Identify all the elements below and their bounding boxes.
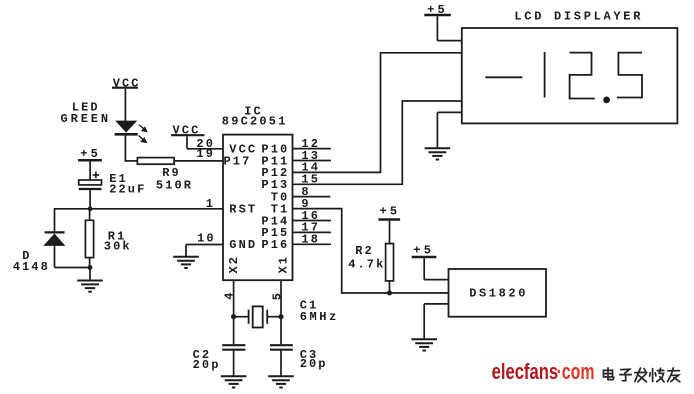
svg-text:10: 10 (197, 232, 216, 246)
svg-text:+5: +5 (413, 244, 434, 258)
svg-text:DS1820: DS1820 (469, 286, 528, 300)
svg-text:20p: 20p (300, 357, 328, 371)
svg-text:X1: X1 (276, 255, 290, 274)
svg-text:89C2051: 89C2051 (222, 115, 288, 129)
svg-text:1: 1 (206, 197, 215, 211)
svg-text:6MHz: 6MHz (300, 310, 339, 324)
svg-text:GND: GND (229, 238, 257, 252)
svg-text:X2: X2 (227, 255, 241, 274)
svg-text:·com: ·com (557, 359, 595, 384)
svg-text:GREEN: GREEN (61, 112, 112, 126)
svg-text:22uF: 22uF (109, 183, 146, 197)
svg-text:RST: RST (229, 202, 257, 216)
svg-text:+5: +5 (380, 204, 401, 218)
svg-text:R2: R2 (355, 244, 374, 258)
svg-text:20p: 20p (193, 358, 221, 372)
svg-text:19: 19 (196, 147, 215, 161)
svg-text:30k: 30k (104, 240, 132, 254)
svg-text:elecfans: elecfans (492, 359, 558, 384)
svg-text:P17: P17 (224, 154, 252, 168)
svg-text:VCC: VCC (113, 77, 141, 91)
svg-text:VCC: VCC (173, 124, 201, 138)
svg-text:P16: P16 (261, 238, 289, 252)
svg-text:+5: +5 (80, 147, 101, 161)
svg-text:4: 4 (222, 290, 236, 299)
svg-text:+5: +5 (427, 3, 448, 17)
svg-text:LCD DISPLAYER: LCD DISPLAYER (514, 10, 643, 24)
svg-text:510R: 510R (156, 179, 193, 193)
svg-text:4148: 4148 (13, 260, 50, 274)
svg-text:18: 18 (301, 233, 320, 247)
svg-text:4.7k: 4.7k (348, 258, 385, 272)
svg-text:5: 5 (271, 291, 285, 300)
